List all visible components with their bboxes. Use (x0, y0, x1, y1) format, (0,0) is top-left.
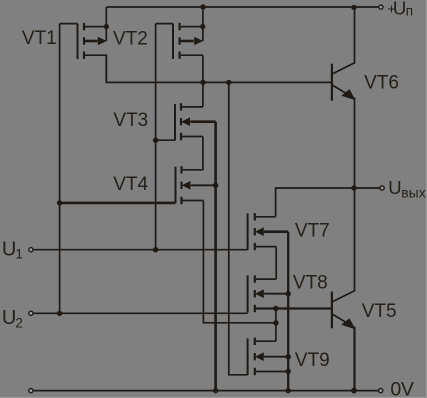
transistor VT2 (p-channel MOSFET) (156, 23, 203, 59)
node U2 / VT1 gate column (57, 311, 62, 316)
terminal Uvyh (380, 186, 384, 190)
wire body net of VT3/VT4 to 0V (thick) (214, 122, 217, 391)
wire VT3 source to VT4 drain (202, 137, 204, 170)
svg-text:1: 1 (15, 247, 23, 262)
terminal 0V left (29, 389, 33, 393)
node VT4 gate branch (57, 200, 62, 205)
transistor VT8 (n-channel MOSFET) (248, 275, 289, 312)
wire VT4 gate lead from U2 column (thick) (60, 202, 176, 205)
svg-text:U: U (388, 177, 401, 198)
node VT8 body (286, 291, 291, 296)
node 0V / VT5 emitter (351, 388, 357, 394)
transistor VT5 (npn BJT) (332, 188, 355, 391)
node 0V / VT3 body net (213, 388, 218, 393)
wire U2 input line (33, 312, 248, 314)
svg-text:2: 2 (15, 316, 23, 331)
node 0V / VT7 body net (286, 388, 291, 393)
wire VT7 source to VT8 drain (275, 247, 277, 280)
svg-text:VT1: VT1 (22, 28, 57, 49)
wire body net of VT7/VT8/VT9 to 0V (287, 232, 289, 391)
svg-text:VT6: VT6 (364, 73, 399, 94)
wire +Un top rail (106, 6, 378, 8)
node dots (57, 4, 357, 393)
node Uvyh / VT6 emitter / VT5 collector (351, 185, 356, 190)
transistor VT9 (n-channel MOSFET) (248, 338, 289, 376)
wire output line Uvyh (276, 188, 380, 217)
transistor VT6 (npn BJT) (332, 7, 355, 188)
wire U2 to VT1/VT4 gate column x=59.6 (59, 24, 61, 314)
node top rail / VT2 source (200, 4, 205, 9)
node VT3 gate (153, 138, 158, 143)
transistor VT1 (p-channel MOSFET) (60, 23, 107, 83)
wire U1 to VT2/VT3 gate column x=155.6 (155, 24, 157, 250)
wire node-A line (VT1/VT2 drains to VT6 base) y=82.4 (106, 55, 332, 82)
wire VT4 source down and right to VT9 drain node (203, 201, 276, 323)
wire VT2 drain down to node A (202, 55, 204, 82)
node U1 / VT3 gate column (153, 247, 158, 252)
transistor VT4 (n-channel MOSFET) (176, 166, 216, 204)
svg-text:U: U (2, 238, 16, 260)
svg-text:VT7: VT7 (295, 221, 330, 242)
edge highlight bottom (0, 397, 427, 398)
node A / VT2 drain (200, 80, 205, 85)
wire U1 input line (33, 249, 248, 251)
svg-text:VT5: VT5 (362, 301, 397, 322)
wire VT2 source to +Un (202, 7, 204, 41)
svg-text:0V: 0V (390, 379, 413, 398)
edge highlight right (426, 0, 427, 398)
node VT4 source / VT9 drain (273, 320, 278, 325)
svg-text:VT3: VT3 (113, 110, 148, 131)
svg-text:вых: вых (401, 185, 426, 201)
svg-text:VT4: VT4 (113, 174, 148, 195)
transistor VT3 (n-channel MOSFET) (156, 103, 216, 140)
svg-text:VT9: VT9 (295, 350, 330, 371)
node VT4 body (213, 183, 218, 188)
wire VT8 source line to VT5 base (255, 307, 332, 309)
node A / VT9 gate branch (226, 80, 231, 85)
svg-text:U: U (393, 0, 406, 18)
svg-text:п: п (406, 4, 413, 19)
wire VT3 drain up to node A (202, 82, 204, 107)
wire VT1 source tie (105, 7, 107, 41)
node VT8 source / VT9 drain (273, 306, 278, 311)
svg-text:U: U (2, 307, 16, 329)
svg-text:VT8: VT8 (293, 273, 328, 294)
wire 0V bottom rail (33, 390, 378, 392)
wire VT8 source branch down to VT9 drain (275, 309, 277, 342)
terminal U1 (29, 248, 33, 252)
transistor VT7 (n-channel MOSFET) (248, 213, 289, 250)
terminal 0V right (379, 389, 383, 393)
wire node-A to VT9 gate column x=228.8 (229, 82, 248, 374)
terminal +Un (379, 5, 383, 9)
node VT9 body (286, 354, 291, 359)
node VT9 source (286, 369, 291, 374)
terminal U2 (29, 311, 33, 315)
node VT1 source (104, 24, 109, 29)
node VT2 source (200, 24, 205, 29)
svg-text:VT2: VT2 (113, 29, 148, 50)
node top rail / VT6 collector (351, 5, 356, 10)
